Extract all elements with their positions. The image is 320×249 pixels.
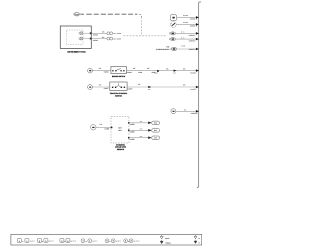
svg-text:C0455: C0455: [130, 131, 135, 134]
bus junction row4: [196, 38, 199, 41]
bus junction rotary row: [196, 110, 199, 113]
svg-text:C0377: C0377: [128, 87, 133, 90]
svg-text:0.5: 0.5: [102, 36, 104, 39]
svg-text:C0377: C0377: [104, 87, 109, 90]
harness reference oval C0045: [74, 13, 80, 19]
footer legend bar: [11, 234, 202, 245]
svg-text:0.5: 0.5: [183, 67, 185, 70]
svg-text:C0507-1: C0507-1: [189, 48, 196, 51]
wire row5 to bus: [177, 45, 198, 52]
inline arrow on traction wire: [148, 86, 151, 91]
traction control connector circle: [88, 85, 93, 90]
inline connector row B: [107, 37, 122, 40]
svg-text:C0234: C0234: [190, 71, 195, 74]
wire brake switch to bus: [126, 67, 198, 74]
svg-text:S11: S11: [148, 89, 151, 91]
inline arrow on brake wire: [173, 70, 176, 75]
legend group 2: [38, 239, 54, 243]
svg-text:NOT USED: NOT USED: [113, 32, 122, 35]
wire row B (not used): [92, 36, 107, 42]
TD5 configuration label: [156, 46, 170, 51]
svg-text:0.5: 0.5: [140, 128, 142, 131]
svg-text:0.5: 0.5: [102, 31, 104, 34]
bus junction row5: [196, 48, 199, 51]
wire rotary coupler to bus: [176, 108, 198, 115]
svg-text:C0233: C0233: [93, 39, 98, 42]
svg-text:0.5: 0.5: [140, 120, 142, 123]
wire lamp2 to pin: [83, 38, 90, 40]
brake switch connector circle: [88, 68, 93, 73]
svg-text:BRAKE SWITCH: BRAKE SWITCH: [112, 75, 126, 78]
svg-text:0.5: 0.5: [140, 135, 142, 138]
legend group 5: [105, 239, 121, 243]
traction control switch label: [110, 92, 128, 97]
wire lamp1 to pin: [83, 32, 90, 34]
wire row2 to bus: [176, 21, 198, 28]
svg-text:C0230: C0230: [93, 34, 98, 37]
svg-text:ROT: ROT: [118, 127, 121, 130]
svg-text:S234: S234: [155, 73, 158, 75]
svg-text:C0455: C0455: [105, 128, 110, 131]
svg-text:0.5: 0.5: [100, 123, 102, 126]
warning lamp 2: [79, 37, 83, 40]
connector oval row 3: [169, 32, 176, 35]
legend right small triangles: [194, 235, 200, 245]
svg-text:0.5: 0.5: [166, 67, 168, 70]
legend group 4: [81, 239, 97, 243]
off-page arrow 2: [148, 129, 159, 133]
svg-text:0.5: 0.5: [181, 36, 184, 39]
legend group 6: [124, 239, 140, 243]
svg-text:S10: S10: [173, 73, 176, 75]
legend earth open triangle: [160, 235, 170, 240]
svg-text:A1: A1: [76, 16, 78, 18]
svg-text:C0505-2: C0505-2: [189, 40, 196, 43]
svg-text:C0377: C0377: [190, 88, 196, 91]
wire brake circle to switch: [92, 67, 111, 74]
svg-text:C0234: C0234: [104, 71, 109, 74]
svg-text:C0508-5: C0508-5: [191, 112, 198, 115]
legend group 1: [17, 239, 35, 243]
component U1 (rounded square, row 1): [170, 15, 176, 21]
steering angle sensor label: [115, 143, 127, 150]
connector oval row 5: [170, 47, 176, 51]
wire row4 to bus: [176, 36, 198, 42]
bus junction traction row: [196, 86, 199, 89]
svg-text:INSTRUMENT PACK: INSTRUMENT PACK: [67, 50, 86, 53]
svg-text:0.5 NY: 0.5 NY: [183, 21, 188, 24]
svg-text:C0234: C0234: [127, 71, 132, 74]
svg-text:SWITCH: SWITCH: [115, 94, 122, 97]
svg-text:0.5: 0.5: [133, 67, 135, 70]
off-page arrow 1: [148, 121, 159, 125]
pin 2 (instrument pack): [90, 38, 92, 40]
instrument pack dashed inner box: [67, 30, 84, 45]
harness dashed route (vertical): [141, 17, 143, 36]
instrument pack box: [60, 26, 91, 48]
svg-text:1.0 B: 1.0 B: [181, 45, 186, 48]
wire traction circle to switch: [92, 83, 109, 90]
warning lamp 1: [79, 32, 83, 35]
steering sensor output wire 3: [129, 135, 149, 141]
wire traction switch to bus: [127, 83, 198, 91]
svg-text:0.5: 0.5: [181, 31, 184, 34]
bus junction brake row: [196, 69, 199, 72]
svg-text:C0455: C0455: [130, 123, 135, 126]
svg-text:0.5: 0.5: [99, 67, 101, 70]
svg-text:C0083-8: C0083-8: [190, 18, 197, 21]
svg-text:Output: Output: [165, 242, 171, 245]
bus junction row1: [196, 16, 199, 19]
wire row3 to bus: [176, 31, 198, 37]
svg-text:0.5: 0.5: [147, 67, 149, 70]
svg-text:C0504-2: C0504-2: [189, 34, 196, 37]
bus junction row2: [196, 23, 199, 26]
harness dashed route (header): [80, 14, 141, 17]
svg-text:Input: Input: [165, 237, 170, 240]
component gauge (circle, row 2): [170, 22, 176, 28]
svg-text:SENSOR: SENSOR: [117, 148, 125, 151]
harness dashed route (horizontal to connectors): [124, 35, 167, 37]
legend earth filled triangle: [160, 240, 171, 245]
svg-text:0.5: 0.5: [138, 83, 140, 86]
off-page arrow 3: [148, 136, 159, 140]
svg-text:TD5: TD5: [166, 46, 169, 49]
svg-text:NOT USED: NOT USED: [113, 37, 122, 40]
brake switch box: [111, 66, 126, 73]
svg-text:S234: S234: [138, 71, 142, 74]
svg-text:0.5: 0.5: [183, 84, 185, 87]
pin 1 (instrument pack): [90, 32, 92, 34]
wire row1 to bus: [177, 14, 198, 21]
steering sensor output wire 2: [129, 128, 149, 134]
svg-text:C0083-9: C0083-9: [190, 25, 197, 28]
svg-text:0.5: 0.5: [184, 108, 186, 111]
traction control switch box: [110, 82, 127, 90]
connector oval row 4: [169, 38, 176, 41]
steering angle sensor dashed box: [111, 116, 130, 143]
legend group 3: [60, 239, 76, 243]
svg-text:C0045: C0045: [74, 13, 79, 16]
inline connector row A: [107, 32, 122, 35]
rotary coupler connector circle: [171, 109, 176, 114]
svg-text:0.5 NY: 0.5 NY: [183, 14, 188, 17]
steering sensor output wire 1: [129, 120, 149, 126]
bus junction row3: [196, 32, 199, 35]
svg-text:0.5: 0.5: [99, 83, 101, 86]
splice S1 on brake wire: [155, 70, 159, 75]
right bus line: [197, 2, 201, 188]
steering sensor connector circle: [91, 125, 96, 130]
wire steering circle to sensor box: [96, 123, 111, 131]
wire row A (not used): [92, 31, 107, 37]
svg-text:C0455: C0455: [130, 138, 135, 141]
